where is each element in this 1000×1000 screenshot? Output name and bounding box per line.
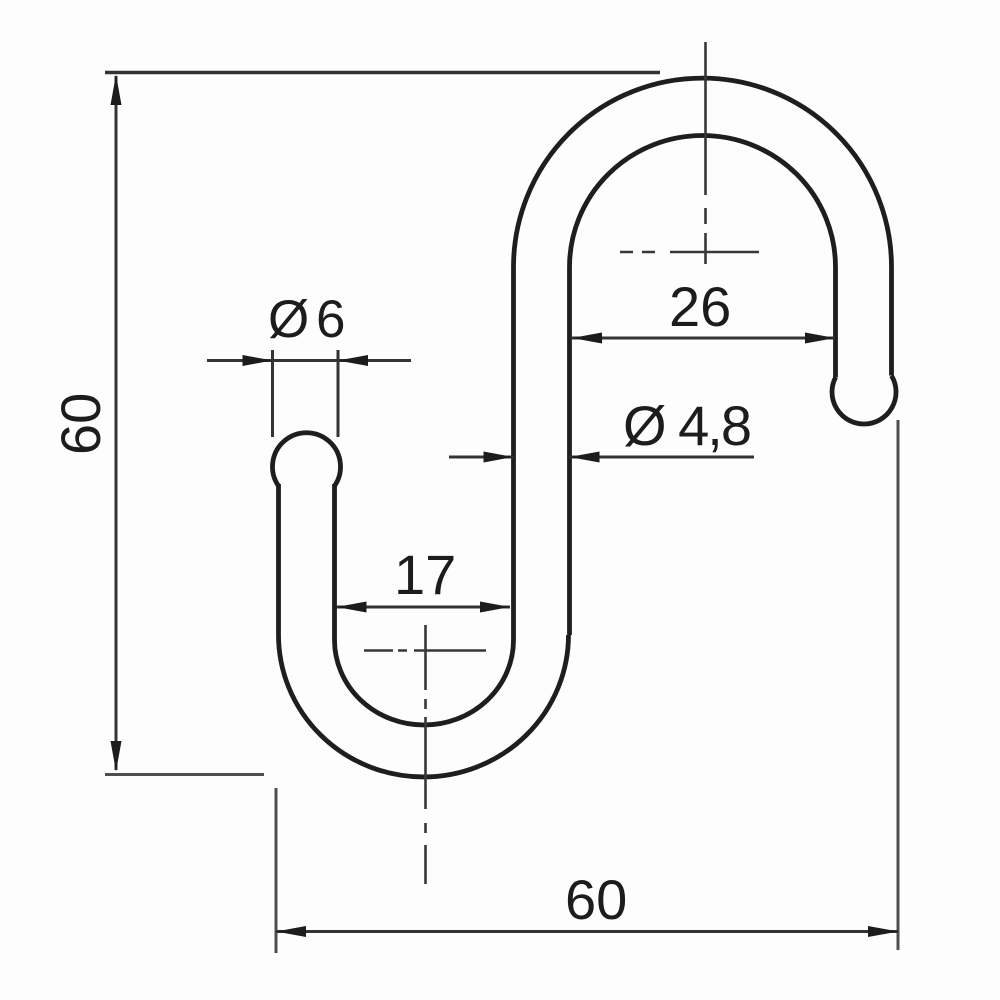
diameter 4,8 left arrow: [484, 452, 514, 463]
17 right arrow: [480, 602, 510, 613]
bottom dimension right extension line: [897, 420, 900, 950]
bottom dimension left extension line: [275, 788, 278, 953]
diameter 4,8 dimension left tail with arrow: [449, 456, 514, 459]
top extension line: [105, 71, 660, 75]
bottom dimension line 60: [276, 930, 898, 933]
diameter 4,8 dimension right tail with arrow: [570, 456, 755, 459]
svg-text:60: 60: [565, 868, 627, 931]
26 left arrow: [572, 333, 602, 344]
left vertical dimension line 60: [115, 76, 118, 770]
svg-text:60: 60: [49, 393, 112, 455]
S-hook outline: big hook inner arc: [570, 135, 836, 267]
diameter 6 right arrow: [338, 355, 368, 366]
svg-text:17: 17: [394, 543, 456, 606]
wire middle right edge line: [567, 267, 572, 635]
small hook ball end: [272, 433, 340, 486]
dimension line 17: [337, 606, 511, 609]
small hook horizontal center line: [364, 649, 486, 652]
left dim arrow down: [111, 741, 122, 772]
svg-text:Ø 6: Ø 6: [268, 290, 344, 349]
diameter 6 right extension line: [337, 350, 340, 437]
diameter 6 left arrow: [243, 355, 273, 366]
small hook inner arc: [335, 640, 514, 725]
small hook vertical center line: [424, 625, 427, 884]
bottom 60 right arrow: [868, 926, 898, 937]
bottom 60 left arrow: [276, 926, 306, 937]
big hook right outer leg: [889, 267, 894, 376]
small hook left inner leg: [332, 484, 337, 640]
diameter 4,8 right arrow: [570, 452, 600, 463]
svg-text:Ø 4,8: Ø 4,8: [623, 394, 750, 457]
big hook horizontal center line: [620, 251, 759, 254]
small hook outer arc: [279, 635, 569, 777]
diameter 6 left extension line: [271, 350, 274, 437]
17 left arrow: [337, 602, 367, 613]
diameter 6 dimension line: [207, 359, 411, 362]
26 right arrow: [805, 333, 835, 344]
bottom-left extension line: [105, 773, 264, 776]
dimension line 26: [572, 337, 835, 340]
small hook left outer leg: [276, 484, 281, 635]
big hook right inner leg: [833, 267, 838, 377]
big hook vertical center line: [704, 42, 707, 264]
left dim arrow up: [111, 75, 122, 106]
big hook ball end: [832, 376, 896, 424]
S-hook outline: big hook outer arc: [514, 78, 892, 267]
wire middle left edge line: [511, 267, 516, 640]
svg-text:26: 26: [669, 275, 731, 338]
